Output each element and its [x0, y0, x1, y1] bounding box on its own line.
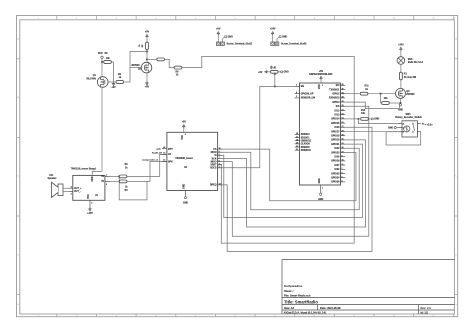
wire SPI net 5 from U2 to U3 [222, 106, 369, 236]
svg-text:KiCad E.D.A. kicad (5.1.9-0-1: KiCad E.D.A. kicad (5.1.9-0-10_14) [284, 311, 326, 315]
pin EN of U3 pin 3 [295, 85, 300, 87]
power +5V above U2 [183, 126, 185, 128]
pin MOSI of U2 pin 9 [218, 151, 222, 153]
frame column ticks top and bottom [57, 16, 454, 317]
svg-text:OUT_+: OUT_+ [74, 188, 82, 190]
svg-text:Date: 2021-05-28: Date: 2021-05-28 [320, 306, 341, 310]
decoder board U2 VS1053B_board [167, 132, 218, 190]
pin A of SW1 [398, 123, 402, 125]
junction below R9 [274, 73, 276, 75]
wire R3 to VS1053 left pin net [127, 154, 167, 176]
pin XRST of U2 pin 4 [218, 164, 222, 166]
svg-text:5: 5 [296, 96, 297, 98]
wire R2 to Q1 gate [102, 61, 104, 63]
svg-text:28: 28 [342, 130, 344, 132]
svg-text:EN: EN [301, 86, 305, 88]
wire SPI net 4 from U2 to U3 [222, 140, 366, 227]
resistor R1 43 ohm 5W (vertical) [400, 72, 403, 80]
svg-text:GND: GND [398, 109, 403, 111]
wire S2 loop to pin B net [386, 132, 421, 145]
svg-text:IRLZ44N: IRLZ44N [86, 77, 96, 80]
svg-text:12: 12 [163, 160, 165, 162]
svg-text:GPIO17: GPIO17 [331, 131, 340, 133]
wire R12 to Q3 source node [389, 102, 400, 104]
svg-text:7: 7 [342, 168, 343, 170]
svg-text:SCK: SCK [212, 158, 217, 160]
pin gain left of U2 [162, 148, 167, 150]
wire Q3 source to ground [400, 98, 402, 104]
svg-text:GND: GND [92, 176, 94, 181]
svg-text:5: 5 [71, 193, 72, 195]
frame row ticks left and right [17, 59, 458, 295]
svg-text:SD2/IO9: SD2/IO9 [301, 147, 311, 149]
wire DREQ net from U2 to U3 [222, 127, 372, 251]
right GPIO pins of U3 [341, 84, 346, 86]
svg-text:GND: GND [228, 36, 233, 38]
svg-text:Size: A4: Size: A4 [284, 306, 295, 310]
svg-text:14: 14 [163, 152, 165, 155]
svg-text:9: 9 [185, 134, 186, 136]
svg-text:30: 30 [342, 135, 344, 137]
power +24V for connector J2 [272, 33, 274, 35]
svg-text:MOSI: MOSI [211, 152, 217, 154]
pin B of SW1 [398, 131, 402, 133]
svg-text:37: 37 [342, 151, 344, 153]
svg-text:+5V: +5V [111, 86, 116, 89]
pin SI of U2 pin 8 [218, 154, 222, 156]
svg-text:Screw_Terminal_01x02: Screw_Terminal_01x02 [281, 43, 307, 45]
power +24V above lamp [400, 49, 402, 51]
power +5V above R5 [146, 36, 148, 38]
svg-text:XRST: XRST [210, 165, 217, 167]
svg-text:File: Smart Radio.sch: File: Smart Radio.sch [284, 293, 311, 297]
svg-text:Speaker: Speaker [48, 178, 57, 180]
svg-text:MISO: MISO [211, 161, 217, 163]
wire EN net to U3 and down to U2 XDCS [222, 86, 295, 167]
svg-text:R10: R10 [361, 110, 366, 112]
svg-text:23: 23 [342, 122, 344, 124]
ground below U2 [184, 197, 186, 199]
svg-text:27: 27 [342, 126, 344, 128]
svg-text:2: 2 [91, 203, 92, 205]
pin XDCS of U2 pin 3 [218, 167, 222, 169]
svg-text:Rotary_Encoder_Switch: Rotary_Encoder_Switch [395, 116, 422, 119]
svg-text:26: 26 [342, 101, 344, 103]
wire R8 toward right and down the page [182, 56, 355, 243]
wire drain tie to gate column [124, 52, 147, 83]
svg-text:IO27: IO27 [334, 165, 340, 167]
wire U3 GPIO16 to encoder pin B [345, 131, 398, 133]
svg-text:34: 34 [342, 96, 344, 99]
svg-text:XDCS: XDCS [210, 168, 217, 170]
ground below U3 [320, 193, 322, 195]
svg-text:+5V: +5V [258, 72, 263, 74]
svg-text:21: 21 [296, 149, 298, 151]
svg-text:28: 28 [163, 147, 165, 149]
svg-text:10: 10 [342, 160, 344, 162]
svg-text:4: 4 [71, 186, 72, 189]
junction VDD resistor tap [101, 61, 103, 63]
pin headphone left of U2 [162, 153, 167, 155]
svg-text:13: 13 [219, 184, 221, 186]
left storage pins of U3 [295, 133, 300, 135]
svg-text:+24V: +24V [398, 43, 404, 46]
power +24V below U1 [89, 207, 91, 209]
pin audio in right of U1 upper [105, 175, 110, 177]
svg-text:+24V: +24V [87, 212, 93, 215]
ground right of R9 [278, 71, 280, 73]
wire R9 tap down to EN net [274, 73, 276, 86]
pin speaker left of U2 [162, 161, 167, 163]
frame zone letters [17, 37, 457, 306]
svg-text:3: 3 [219, 167, 220, 169]
wire R5 to Q2 drain [146, 38, 148, 42]
pin VCC bottom of U1 [89, 200, 91, 207]
resistor R8 1k [174, 66, 182, 69]
wire [272, 35, 274, 42]
svg-text:VDD: VDD [98, 53, 103, 55]
svg-text:= +3.3v: = +3.3v [425, 125, 434, 127]
svg-text:RXD0/IO3: RXD0/IO3 [329, 98, 340, 100]
svg-text:DREQ: DREQ [210, 185, 217, 187]
pin OUT- of U1 [69, 190, 73, 192]
pin audio in right of U1 lower [105, 180, 110, 182]
svg-text:IO12: IO12 [334, 110, 340, 112]
svg-text:CLK/IO6: CLK/IO6 [301, 144, 311, 146]
svg-text:13k: 13k [106, 58, 111, 60]
junction Q3 gate node [380, 93, 382, 95]
svg-text:SD1/IO1: SD1/IO1 [301, 137, 311, 139]
pin S2 of SW1 [417, 131, 420, 133]
svg-text:17: 17 [296, 136, 298, 138]
wire loop from R3 node around to R4 output [119, 176, 147, 200]
svg-text:Surfparadise: Surfparadise [284, 284, 303, 288]
svg-text:CS: CS [213, 149, 217, 151]
wire speaker to amplifier OUT+ [63, 187, 69, 189]
svg-text:Sheet: /: Sheet: / [284, 289, 294, 293]
pin OUT+ of U1 [69, 187, 73, 189]
connector J2 Screw_Terminal_01x02 [271, 42, 275, 45]
resistor R7 at Q2 drain [157, 58, 165, 61]
svg-text:VDD: VDD [319, 84, 321, 89]
svg-text:SD3/IO10: SD3/IO10 [301, 150, 312, 152]
wire U1 to R4 [110, 180, 119, 182]
svg-text:3: 3 [296, 85, 297, 87]
wire lamp to R1 [400, 64, 402, 72]
svg-text:GND: GND [388, 127, 393, 129]
pin GPIO39 of U3 [295, 97, 300, 99]
wire [217, 35, 219, 42]
svg-text:7: 7 [106, 175, 107, 177]
svg-text:2N7000: 2N7000 [131, 65, 140, 67]
wire R7 to R8 jog [164, 59, 174, 67]
svg-text:GPIO2: GPIO2 [332, 94, 340, 96]
pin C of SW1 [398, 127, 402, 129]
svg-text:VCC: VCC [88, 194, 90, 199]
wire U1 to R3 [110, 175, 119, 177]
svg-text:IO32: IO32 [334, 169, 340, 171]
wire R4 to VS1053 left pin net [127, 162, 167, 182]
svg-text:IO13: IO13 [334, 115, 340, 117]
pin SCK of U2 pin 7 [218, 157, 222, 159]
svg-text:4: 4 [219, 162, 220, 165]
ground for connector J1 [222, 39, 224, 43]
lamp BU1 Bulb 20v 5.1A [397, 57, 405, 65]
svg-text:gain: gain [168, 148, 173, 150]
junction R10 node [357, 118, 359, 120]
svg-text:VS1053B_board: VS1053B_board [175, 158, 193, 160]
wire R1 to Q3 drain [400, 80, 402, 89]
power +5V stub below gate node [113, 82, 115, 84]
svg-text:36: 36 [342, 147, 344, 149]
wire SPI net 2 from U2 to U3 [222, 148, 359, 209]
pin MISO of U2 pin 6 [218, 161, 222, 163]
svg-text:11: 11 [342, 164, 344, 166]
svg-text:LS1: LS1 [49, 175, 54, 177]
svg-text:VCC: VCC [182, 135, 184, 140]
svg-text:24: 24 [342, 92, 344, 95]
svg-text:IO25: IO25 [334, 157, 340, 159]
svg-text:GPIO35: GPIO35 [331, 182, 340, 184]
svg-text:GND: GND [183, 202, 188, 204]
svg-text:1: 1 [94, 170, 95, 172]
svg-text:GND: GND [184, 183, 186, 188]
svg-text:25: 25 [342, 84, 344, 86]
pin GND bottom of U2 [185, 191, 187, 197]
svg-text:SD0/IO0: SD0/IO0 [301, 134, 311, 136]
svg-text:GND: GND [319, 178, 321, 183]
svg-text:2N7000: 2N7000 [406, 94, 415, 96]
wire speaker to amplifier OUT- [63, 190, 69, 192]
svg-text:31: 31 [342, 139, 344, 141]
svg-text:GPIO26: GPIO26 [331, 161, 340, 163]
wire VDD to Q1 drain [101, 59, 103, 78]
wire U3 GPIO4 jog to ground net [345, 102, 399, 109]
svg-text:GND: GND [282, 36, 287, 38]
wire U3 GPIO14 to R10 [345, 118, 356, 120]
svg-text:20: 20 [296, 146, 298, 148]
svg-text:SI: SI [214, 155, 217, 157]
svg-text:SPK: SPK [168, 161, 173, 163]
svg-text:BU1: BU1 [408, 59, 413, 61]
wire SPI net 1 from U2 to U3 [222, 149, 356, 201]
svg-text:GPIO21: GPIO21 [331, 144, 340, 146]
connector J1 Screw_Terminal_01x02 [216, 42, 220, 45]
svg-text:R11: R11 [365, 86, 370, 88]
svg-text:1: 1 [322, 187, 323, 189]
svg-text:16: 16 [296, 133, 298, 135]
svg-text:12: 12 [342, 118, 344, 120]
svg-text:+24V: +24V [270, 28, 276, 31]
svg-text:8: 8 [106, 184, 107, 186]
svg-text:TXD0/IO1: TXD0/IO1 [329, 89, 340, 91]
pin CS of U2 pin 10 [218, 148, 222, 150]
svg-text:SENSOR_UN: SENSOR_UN [301, 98, 316, 100]
pin DREQ of U2 pin 13 [218, 184, 222, 186]
svg-text:2: 2 [322, 85, 323, 87]
svg-text:9: 9 [219, 151, 220, 153]
svg-text:18: 18 [296, 140, 298, 142]
svg-text:Rev: 2.0: Rev: 2.0 [421, 306, 432, 310]
svg-text:GPIO33: GPIO33 [331, 173, 340, 175]
svg-text:gain: gain [157, 148, 162, 150]
svg-text:IN: IN [101, 176, 104, 178]
svg-text:GPIO15: GPIO15 [331, 123, 340, 125]
svg-text:Kopfh_LB: Kopfh_LB [152, 152, 162, 154]
wire gate node down to R12 [380, 94, 382, 103]
title block outline [282, 260, 454, 315]
junction Q2 drain node [146, 50, 148, 52]
svg-text:IN: IN [101, 181, 104, 183]
pin GPIO36 of U3 [295, 93, 300, 95]
svg-text:35: 35 [342, 88, 344, 90]
svg-text:+5V: +5V [182, 121, 187, 124]
svg-text:GND: GND [284, 72, 289, 74]
pin S1 of SW1 [417, 123, 420, 125]
svg-text:5: 5 [342, 177, 343, 179]
svg-text:GPIO23: GPIO23 [331, 152, 340, 154]
svg-text:4: 4 [296, 91, 297, 94]
switch contacts inside SW1 [412, 123, 413, 124]
svg-text:43 ohm 5W: 43 ohm 5W [404, 76, 417, 79]
svg-text:IO16: IO16 [334, 127, 340, 129]
pin GND bottom of U3 [320, 185, 322, 193]
wire U3 GPIO2 to R11 [345, 93, 359, 95]
wire SPI net 3 from U2 to U3 [222, 144, 362, 217]
frame zone numbers [38, 18, 456, 318]
ground right of R10 [368, 118, 371, 120]
svg-text:9: 9 [342, 156, 343, 158]
wire R10 node to encoder pin A [358, 119, 398, 124]
wire +5V to U2 VCC [183, 128, 185, 132]
svg-text:Lautsprecher_A: Lautsprecher_A [142, 159, 158, 162]
svg-text:OUT_-: OUT_- [74, 191, 81, 193]
svg-text:Id: 1/1: Id: 1/1 [421, 311, 429, 315]
svg-text:29: 29 [342, 105, 344, 107]
svg-text:6: 6 [219, 160, 220, 162]
svg-text:33: 33 [342, 143, 344, 145]
wire +24V to lamp [400, 51, 402, 57]
svg-text:19: 19 [296, 143, 298, 145]
svg-text:CMD/IO11: CMD/IO11 [301, 141, 312, 143]
svg-text:10: 10 [219, 148, 221, 150]
svg-text:Title: SmartRadio: Title: SmartRadio [284, 299, 318, 304]
ground for connector J2 [276, 39, 278, 43]
svg-text:GPIO14: GPIO14 [331, 118, 340, 121]
wire R11 to Q3 gate [368, 93, 396, 95]
svg-text:GND: GND [374, 119, 379, 121]
svg-text:GPIO36_UP: GPIO36_UP [301, 93, 314, 95]
svg-text:15: 15 [342, 114, 344, 116]
svg-text:ESP32-WROOM-32D: ESP32-WROOM-32D [309, 73, 332, 76]
svg-text:GPIO34: GPIO34 [331, 177, 340, 180]
svg-text:IO22: IO22 [334, 148, 340, 150]
power +5V for connector J1 [217, 33, 219, 35]
svg-text:8: 8 [219, 154, 220, 156]
wire gate feed [130, 67, 141, 69]
svg-text:LB: LB [168, 154, 171, 156]
svg-text:Bulb 20v 5.1A: Bulb 20v 5.1A [408, 61, 424, 64]
ground at encoder common [394, 127, 396, 129]
svg-text:+5V: +5V [145, 30, 150, 33]
svg-text:+5V: +5V [145, 86, 150, 89]
svg-text:7: 7 [219, 157, 220, 159]
svg-text:+5V: +5V [216, 28, 221, 31]
svg-text:TPA3116_mono Board: TPA3116_mono Board [71, 167, 97, 170]
wire +5V to U3 [320, 80, 322, 83]
svg-text:GPIO19: GPIO19 [331, 140, 340, 142]
svg-text:SW1: SW1 [405, 114, 411, 116]
svg-text:GPIO4: GPIO4 [332, 101, 340, 104]
ground below Q3 [399, 104, 401, 106]
wire Q1 source down to amplifier board [101, 87, 103, 172]
svg-text:6: 6 [342, 181, 343, 183]
svg-text:GPIO18: GPIO18 [331, 136, 340, 138]
svg-text:8: 8 [342, 172, 343, 174]
power +5V below Q2 source [146, 72, 148, 81]
svg-text:13: 13 [342, 109, 344, 111]
svg-text:Screw_Terminal_01x02: Screw_Terminal_01x02 [227, 43, 253, 45]
